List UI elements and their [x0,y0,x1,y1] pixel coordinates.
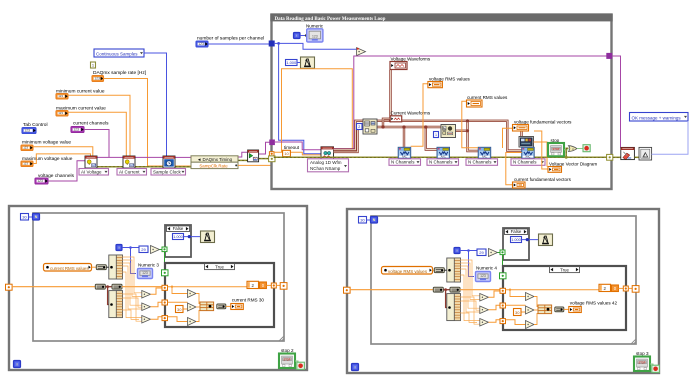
wire: loop2 N wire (blue) [29,216,33,218]
svg-text:30: 30 [22,215,27,220]
svg-text:Current Waveforms: Current Waveforms [391,111,431,116]
node: loop2 divide triangle 1 [188,290,197,298]
node: Or gate [569,146,578,152]
wire: loop3 comparison result (green) [498,252,501,254]
indicator: Current Waveforms [390,116,402,122]
node: loop2 multiply triangle 3 [142,316,151,324]
VI: DAQmx Clear Task [621,147,635,159]
tunnel: number of samples (blue) on loop left border [269,41,274,46]
control: stop button terminal [548,143,564,156]
dropdown: Analog 1D Wfm NChan NSamp selector [308,159,349,172]
wire: maximum voltage value (orange) [33,154,91,164]
dropdown: AI Current selector [117,169,147,176]
wire: error cluster (olive) across main loop [274,156,608,158]
VI: vector diagram build node [519,137,534,148]
svg-text:AAC: AAC [482,155,487,158]
structure: main while loop - Data Reading and Basic Power Measurements Loop [272,15,612,190]
svg-text:2: 2 [358,125,360,129]
svg-text:voltage RMS values: voltage RMS values [429,76,471,81]
wire: loop3 case output (orange) [618,287,623,289]
node: loop2 multiply triangle 1 [142,291,151,299]
wire: task (purple) to DAQmx Read [274,142,321,150]
control: voltage channels terminal (DAQmx name) [35,178,48,184]
wire: loop3 into bundler (orange) [534,297,540,307]
svg-text:123: 123 [94,77,100,81]
wire: waveform array (maroon) bus B to Tone Measurements [334,127,442,152]
wire: loop3 selector (green) down to main case [502,255,504,273]
tunnel: loop2 data in (orange) on while border [6,284,13,290]
wire: error cluster (olive) through chain [97,166,123,168]
wire: loop2 into unbundle 1 [107,266,113,268]
node: loop2 divide triangle 3 [188,318,197,326]
control: minimum voltage value terminal [21,145,33,151]
node: DAQmx Timing property block [191,156,238,162]
VI: DAQmx Start Task [248,150,259,162]
svg-text:29: 29 [141,247,146,252]
wire: error (olive) to DAQmx Clear Task [613,156,621,158]
node: loop3 multiply triangle 2 [480,306,489,314]
control: Tab Control terminal [22,128,36,134]
svg-text:STOP: STOP [552,147,559,151]
svg-text:current RMS values: current RMS values [467,95,508,100]
node: loop2 loop condition terminal [297,362,305,369]
wire: loop3 input row (orange) from tunnel [350,289,433,291]
indicator: loop2 output RMS indicator [231,304,244,310]
wire: loop2 orange fan from unbundles [122,257,141,293]
constant: loop2 29 comparison value [139,246,148,253]
node: loop3 array converter 2 [433,287,443,292]
svg-text:30: 30 [177,307,182,312]
svg-text:AI Voltage: AI Voltage [81,169,102,174]
svg-text:AI Current: AI Current [119,169,140,174]
indicator: Voltage Waveforms [390,62,407,70]
tunnel: loop2 orange tunnels on case left border [162,285,168,290]
node: loop3 build array block [538,305,552,314]
constant: loop2 case output 0 [259,282,266,289]
wire: stop boolean (green) [564,149,569,151]
node: loop2 equal? comparator [151,246,160,254]
svg-text:SampClk.Rate: SampClk.Rate [199,163,228,168]
svg-text:N Channels: N Channels [429,160,453,165]
control: number of samples per channel terminal [196,41,208,47]
svg-text:123: 123 [58,94,63,98]
svg-text:N Channels: N Channels [513,160,537,165]
node: loop3 case selector terminal (green) [500,273,507,279]
VI: Tone Measurements express node [441,125,456,138]
dropdown: N Channels selector 2 [427,159,459,166]
structure: loop2 inner for loop [33,213,284,341]
express VI: channel selector 2 [437,147,450,158]
constant: loop2 case output 2 [247,281,259,288]
control: Continuous Samples enum dropdown [94,49,144,57]
wire: loop3 maroon link between converters [444,289,451,291]
control: maximum current value terminal [56,111,68,117]
svg-text:current RMS values: current RMS values [50,266,89,271]
wire: error (olive) to Simple Error Handler [634,156,639,158]
wire: loop3 main data row (orange) into case [460,289,500,291]
svg-text:Numeric 4: Numeric 4 [476,266,497,271]
wire: loop2 maroon link between converters [106,286,113,288]
control: loop2 stop button terminal [279,354,295,369]
dropdown: Sample Clock selector [151,169,186,176]
dropdown: AI Voltage selector [79,169,109,176]
node: loop3 while iteration terminal i [352,364,359,371]
indicator: loop3 Numeric [476,272,491,282]
constant: loop3 1.000 wait [511,237,522,243]
express VI: channel selector 4 [522,147,535,158]
svg-text:voltage RMS values: voltage RMS values [388,269,428,274]
svg-text:AAC: AAC [402,155,407,158]
wire: sample-rate routed (orange) across loop [282,69,353,152]
VI: Simple Error Handler [639,147,652,160]
wire: loop3 wait value (blue) [522,239,539,241]
svg-text:Numeric: Numeric [306,23,324,28]
node: loop2 for-loop count terminal N [33,214,40,221]
wire: loop2 triangle outputs (orange) to case tunnels [151,288,162,294]
wire: DAQmx task (purple) through chain [97,156,123,158]
VI: DAQmx Create Channel AI Current [123,156,135,168]
svg-text:123: 123 [23,146,28,150]
svg-text:1.000: 1.000 [511,238,521,242]
VI: DAQmx Timing Sample Clock icon [163,156,175,168]
svg-text:29: 29 [479,250,484,255]
structure: loop3 while loop [347,209,659,373]
svg-text:123: 123 [312,34,318,38]
wire: 1.000 to Wait (blue) [297,62,301,64]
svg-text:current RMS 30: current RMS 30 [232,298,265,303]
svg-text:True: True [560,267,569,272]
tunnel: loop2 case output tunnel [271,283,276,288]
tunnel: loop3 case output tunnel [623,286,628,291]
tunnel: error (olive) on loop left border [269,156,275,162]
tunnel: loop3 for-loop indexing tunnel [632,286,639,293]
node: loop3 for-loop grip [631,339,636,344]
node: loop2 converter to indicator [217,304,226,309]
constant 1 (array index) [91,62,96,68]
node: loop3 converter to indicator [555,307,564,312]
svg-text:123: 123 [37,179,43,183]
wire: voltage channels (purple) [48,161,85,181]
svg-text:30: 30 [360,218,365,223]
wire: loop2 comparison result (green) [160,249,163,251]
structure: loop2 wait case structure (False shown) [165,225,191,257]
node: loop2 case selector terminal (green) [162,270,169,276]
indicator: voltage fundamental vectors [513,125,529,132]
wire: loop2 to RMS indicator [226,305,231,307]
wire: orange to Voltage Vector Diagram [534,131,548,169]
svg-text:123: 123 [480,274,486,278]
wire: loop2 input row (orange) from tunnel [12,286,95,288]
svg-text:123: 123 [92,164,97,167]
svg-text:current channels: current channels [73,121,109,127]
wire: waveform array (maroon) bus A to express VI 4 [334,121,522,151]
node: loop iteration terminal i [294,33,301,39]
wire: loop3 triangle outputs (orange) to case tunnels [489,291,500,297]
constant: loop2 divisor 30 [176,306,184,313]
svg-text:!: ! [644,153,645,157]
svg-text:123: 123 [73,128,79,132]
svg-text:N Channels: N Channels [391,160,415,165]
wire: timeout/rate (orange) to DAQmx Read [274,152,321,155]
svg-text:123: 123 [130,164,135,167]
constant: 1.000 wait time [286,60,298,66]
structure: loop2 while loop [9,206,307,370]
wire: number of samples (blue) inside loop [274,42,279,44]
wire: maroon drop to vector diagram node [520,131,522,136]
node: loop3 equal? comparator [489,249,498,257]
svg-text:current fundamental vectors: current fundamental vectors [514,177,572,182]
wire: loop3 local variable to convert (orange) [433,269,435,271]
tunnel: loop2 for-loop indexing tunnel [280,283,287,290]
svg-text:123: 123 [198,42,204,46]
node: loop2 for-loop grip [279,336,284,341]
control: loop3 RMS values local variable [382,267,433,275]
node: loop3 for-loop count terminal N [371,217,378,224]
tunnel: task exit (purple) on loop right border [607,53,612,58]
constant: loop3 case output 2 [599,284,611,291]
control: loop3 stop button terminal [634,357,650,372]
svg-text:NChan NSamp: NChan NSamp [310,166,341,171]
svg-text:◄ DAQmx Timing: ◄ DAQmx Timing [197,157,233,162]
wire: loop2 main data row (orange) into case [122,286,162,288]
svg-text:i: i [16,362,17,367]
wire: loop3 into unbundle 1 [445,269,451,271]
svg-text:Analog 1D Wfm: Analog 1D Wfm [310,160,342,165]
svg-text:N Channels: N Channels [468,160,492,165]
wire: sample rate (orange) [104,79,192,167]
structure: loop2 main case structure (True shown) [165,263,274,327]
wire: loop3 N wire (blue) [367,219,371,221]
indicator: current RMS values [467,100,483,107]
node: loop3 multiply triangle 3 [480,319,489,327]
wire: maroon Tone output [456,130,468,132]
node: loop condition terminal (stop if true) [583,145,590,152]
wire: number of samples (blue) into loop [208,43,271,45]
wire: current RMS (orange) [462,101,478,147]
wire: loop2 into bundler (orange) [196,294,202,304]
node: loop3 unbundle cluster 2 [447,294,461,321]
constant: channel index (blue) for split node [357,124,363,130]
wire: current channels (purple) [84,130,109,158]
dropdown: N Channels selector 3 [466,159,498,166]
wire: minimum voltage value (orange) [33,147,93,156]
node: loop3 unbundle cluster 1 [447,258,461,282]
node: loop2 unbundle cluster 1 [109,255,123,279]
indicator: current fundamental vectors [513,182,526,188]
VI: Wait Until Next ms Multiple (metronome) [301,57,315,68]
svg-text:30: 30 [515,310,520,315]
tunnel: task wire (purple) on loop left border [270,140,275,145]
constant: loop3 29 comparison value [477,249,486,256]
constant: loop3 case output 0 [611,285,618,292]
tunnel: loop3 orange tunnels on case left border [500,288,506,293]
wire: current fundamental vectors (orange) [506,153,522,185]
junction: maroon branch dots [389,119,392,122]
structure: loop3 main case structure (True shown) [503,266,626,330]
constant: timeout 10 [283,150,291,156]
node: loop3 loop condition terminal [652,365,660,372]
node: loop2 build array block [200,302,214,311]
control: current channels terminal (DAQmx name) [71,127,84,133]
svg-text:Data Reading and Basic Power M: Data Reading and Basic Power Measurement… [275,17,386,22]
node: loop3 divide triangle 3 [526,321,535,329]
indicator: voltage RMS values [428,82,443,88]
control: maximum voltage value terminal [21,161,33,167]
control: loop2 RMS values local variable [44,264,92,272]
svg-text:i: i [354,365,355,370]
node: loop2 array converter 1 [96,265,106,270]
wire: loop2 selector (green) down to main case [164,252,166,270]
node: loop3 for-loop iteration terminal i [454,248,460,254]
express VI: channel selector 1 [398,147,411,158]
svg-text:AAC: AAC [441,155,446,158]
wire: loop2 i (blue) [122,247,139,249]
svg-text:False: False [511,229,522,234]
wire: minimum current value (orange) [68,95,130,156]
indicator: loop3 output RMS indicator [569,307,582,313]
svg-text:1.000: 1.000 [286,60,297,65]
node: loop3 divide triangle 1 [526,293,535,301]
tunnel: sample rate (orange) on loop left border [269,152,274,156]
wire: loop2 case output (orange) [266,284,271,286]
VI: loop2 Wait ms metronome [201,231,215,243]
svg-text:∨: ∨ [572,147,574,151]
express VI: channel selector 3 [478,147,491,158]
VI: loop3 Wait ms metronome [539,234,553,246]
wire: sample-mode (blue) to DAQmx Timing [144,53,167,157]
dropdown: OK message + warnings [630,113,689,122]
node: increment (+1) conversion triangle [357,48,366,56]
VI: waveform split / index array node [363,119,377,134]
wire: maroon drop to express VI 3 [468,121,479,151]
svg-text:1.000: 1.000 [173,235,183,239]
node: loop3 case selector tunnel (green) [500,250,505,255]
indicator: Numeric [307,29,323,42]
wire: loop3 i (blue) [460,250,477,252]
VI: DAQmx Read Analog 1D Wfm [321,147,334,159]
wire: loop2 stop (green) [295,361,298,364]
wire: loop3 to for-loop tunnel (orange) [628,287,633,289]
svg-text:False: False [173,226,184,231]
dropdown: N Channels selector 4 [511,159,545,166]
constant: blue input for tone node [434,132,439,138]
node: loop2 unbundle cluster 2 [109,291,123,318]
svg-text:123: 123 [58,111,63,115]
svg-text:True: True [215,264,224,269]
svg-text:STOP: STOP [283,357,290,361]
node: loop2 multiply triangle 2 [142,303,151,311]
wire: maroon to Current Waveforms indicator [383,119,390,127]
wire: loop2 to for-loop tunnel (orange) [276,284,281,286]
node: loop2 case selector tunnel (green) [162,247,167,252]
control: DAQmx sample rate terminal [92,76,104,82]
VI: DAQmx Create Channel AI Voltage [85,156,97,168]
wire: voltage fundamental vectors (orange) [503,128,514,148]
svg-text:Voltage Vector Diagram: Voltage Vector Diagram [549,161,597,166]
structure: loop3 wait case structure (False shown) [503,228,529,260]
svg-text:voltage fundamental vectors: voltage fundamental vectors [514,119,572,124]
svg-text:Voltage Waveforms: Voltage Waveforms [391,56,431,61]
svg-text:1: 1 [435,133,437,137]
svg-text:123: 123 [23,162,28,166]
svg-text:Continuous Samples: Continuous Samples [96,51,138,56]
svg-text:123: 123 [24,129,30,133]
tunnel: error exit (olive) on loop right border [607,154,613,160]
wire: error dialog type (blue) [652,121,688,154]
wire: error status (olive) up to Or gate [566,148,568,157]
wire: actual sample rate (orange) to loop tunnel [238,155,271,165]
wire: voltage RMS (orange) [411,84,428,147]
svg-text:AAC: AAC [525,155,530,158]
wire: maroon to Voltage Waveforms indicator [389,70,391,121]
node: loop2 while iteration terminal i [14,361,21,368]
wire: maximum current value (orange) [68,112,126,156]
dropdown: N Channels selector 1 [389,159,421,166]
wire: or output (green) [577,148,583,150]
wire: task out (purple) around loop to clear task [334,56,610,149]
control: minimum current value terminal [56,94,68,100]
wire: loop2 case inner rows (orange) [168,286,249,288]
wire: loop2 local variable to convert (orange) [92,266,97,268]
node: loop2 for-loop iteration terminal i [116,245,122,251]
node: loop3 array converter 3 [450,287,460,292]
node: loop2 divide triangle 2 [188,303,197,311]
svg-text:OK message + warnings: OK message + warnings [632,115,682,120]
tunnel: loop3 data in (orange) on while border [344,287,351,293]
wire: loop3 orange fan from unbundles [460,260,479,296]
wire: loop3 stop (green) [650,364,653,367]
constant: loop2 1.000 wait [173,234,184,240]
node: loop3 divide triangle 2 [526,306,535,314]
svg-text:10: 10 [284,151,289,156]
node: loop3 multiply triangle 1 [480,294,489,302]
node: loop2 array converter 3 [112,284,122,289]
svg-text:123: 123 [142,271,148,275]
svg-text:timeout: timeout [284,145,300,150]
svg-text:Sample Clock: Sample Clock [153,169,182,174]
wire: loop3 case inner rows (orange) [506,289,601,291]
svg-text:voltage RMS values 42: voltage RMS values 42 [570,301,618,306]
wire: loop2 wait value (blue) [184,236,201,238]
node: loop2 array converter 2 [95,284,105,289]
constant: loop3 divisor 30 [514,309,522,316]
wire: i to Numeric indicator (blue) [300,35,307,37]
wire: maroon drop to express VI 1 [403,127,405,148]
wire: maroon drop to express VI 2 [426,127,437,150]
node: loop3 array converter 1 [434,268,444,273]
constant: loop3 30 iterations [359,217,367,224]
indicator: loop2 Numeric [138,269,153,279]
structure: loop3 inner for loop [371,216,636,344]
constant: loop2 30 iterations [21,214,29,221]
indicator: Voltage Vector Diagram [548,167,562,173]
svg-text:STOP: STOP [638,360,645,364]
wire: loop3 to RMS indicator [564,308,569,310]
svg-text:Numeric 3: Numeric 3 [138,263,159,268]
